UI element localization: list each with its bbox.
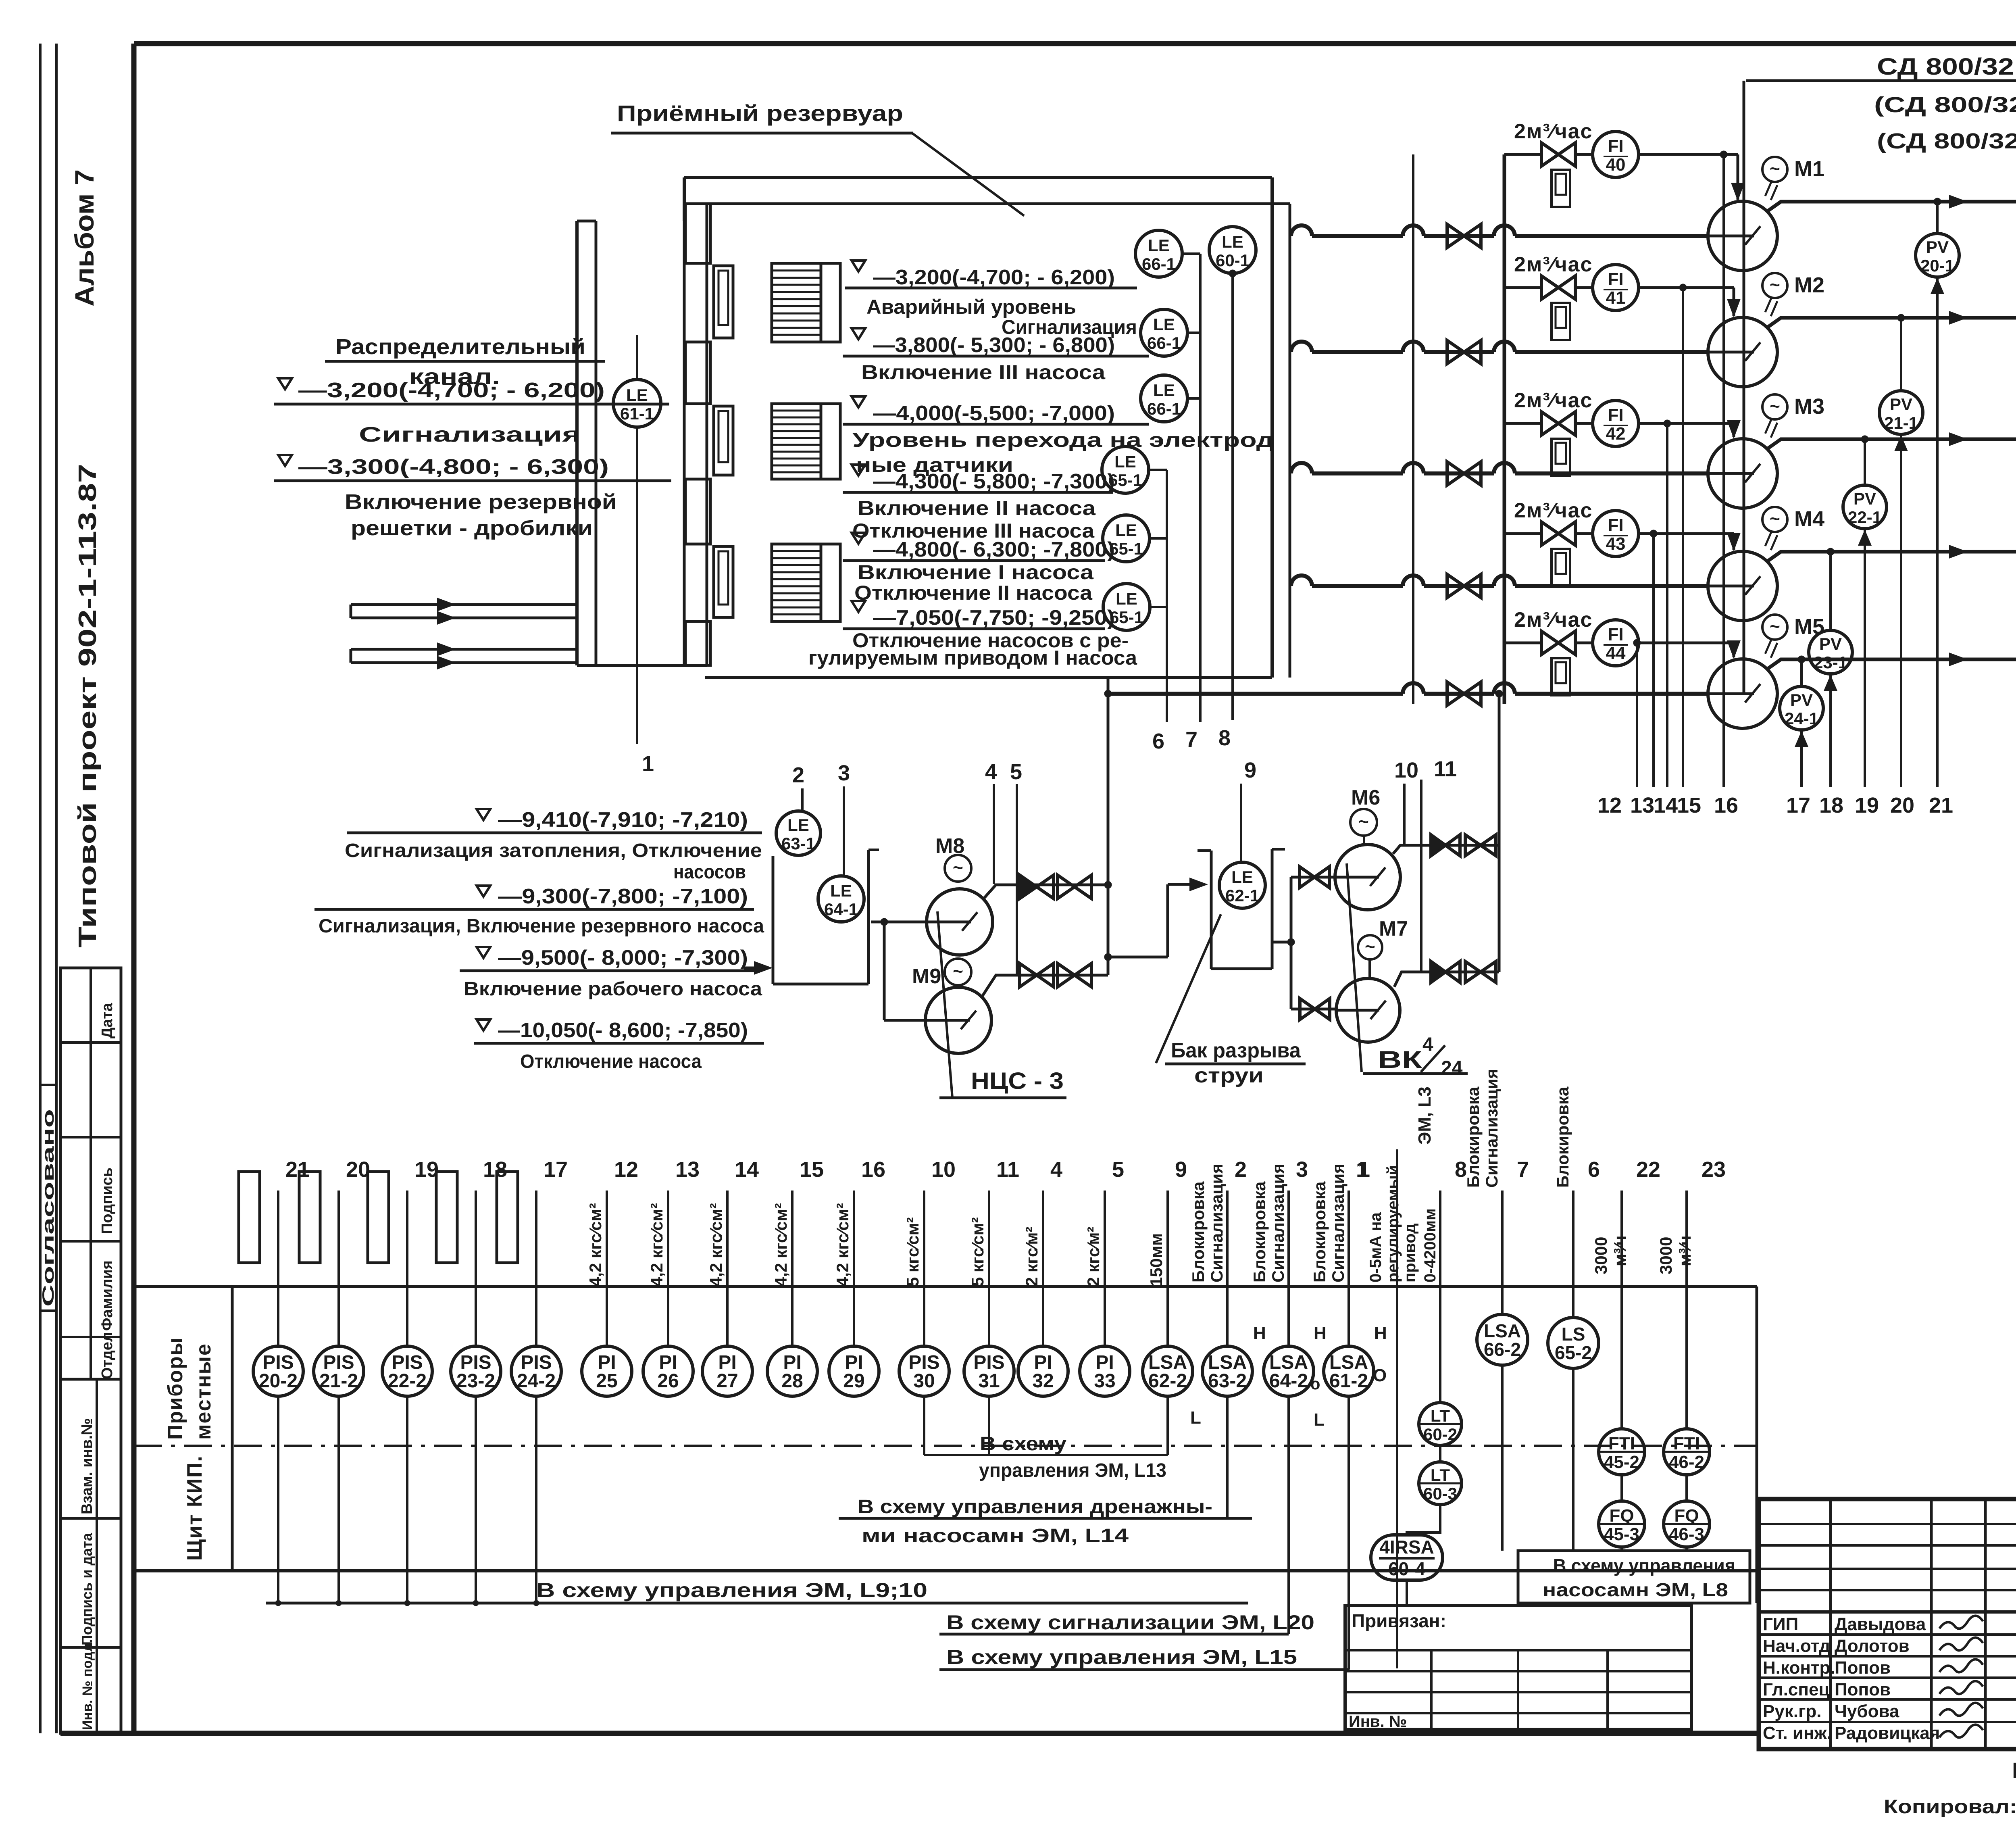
sheet edge double line left [39,44,42,1733]
pressure gauge PV 24-1 with riser 17 [1800,659,1803,686]
branch feed into pump M2 [1639,286,1734,289]
instrument LSA 62-2 [1166,1191,1169,1346]
svg-text:В схему управления дренажны-: В схему управления дренажны- [858,1496,1212,1518]
branch feed into pump M4 [1639,532,1734,535]
svg-text:4: 4 [1422,1034,1433,1055]
svg-text:64-1: 64-1 [824,900,858,919]
svg-text:5 кгс∕см²: 5 кгс∕см² [903,1217,922,1286]
level value —3,800(- 5,300; - 6,800) [852,328,865,339]
grid unit 1 right strip [821,263,840,342]
svg-text:23-2: 23-2 [456,1370,495,1392]
svg-text:М2: М2 [1794,273,1824,297]
svg-text:FQ: FQ [1609,1506,1634,1526]
instrument LSA 64-2 [1287,1191,1290,1346]
svg-text:МФ 2417-07: МФ 2417-07 [2012,1758,2016,1783]
level transmitter LE 66-1 (b) [1141,309,1187,356]
svg-text:LS: LS [1562,1324,1585,1345]
svg-text:Отдел: Отдел [99,1332,116,1379]
svg-text:Блокировка: Блокировка [1250,1181,1269,1282]
svg-text:28: 28 [781,1370,803,1392]
svg-text:Блокировка: Блокировка [1310,1181,1329,1282]
svg-text:18: 18 [1819,793,1843,817]
svg-text:41: 41 [1606,288,1626,308]
svg-text:—9,410(-7,910; -7,210): —9,410(-7,910; -7,210) [498,808,748,832]
svg-text:18: 18 [483,1157,507,1182]
level transmitter LE 65-1 (a) [1102,446,1149,493]
svg-text:Отключение II насоса: Отключение II насоса [854,582,1093,604]
svg-text:2м³∕час: 2м³∕час [1514,389,1593,412]
svg-text:Гл.спец: Гл.спец [1763,1680,1830,1699]
svg-text:привод: привод [1401,1223,1419,1282]
svg-text:Включение III насоса: Включение III насоса [861,361,1106,384]
wire to scheme L9;10 [277,1396,279,1603]
svg-text:7: 7 [1517,1157,1529,1182]
wire to scheme L20 [1287,1396,1290,1634]
instrument PIS 23-2 [475,1191,477,1346]
flow indicator FTI 45-2 [1599,1429,1645,1475]
pump M9 suction [883,922,886,1020]
svg-text:LE: LE [787,815,809,834]
svg-text:LE: LE [1153,315,1175,334]
M7 discharge gate valve [1465,961,1496,982]
wire 8 from LE 60-1 down [1231,273,1234,720]
svg-text:Н: Н [1314,1323,1327,1343]
svg-text:62-1: 62-1 [1225,886,1259,905]
svg-text:23-1: 23-1 [1814,653,1847,672]
svg-text:~: ~ [1770,275,1780,295]
suction gate valve M3 [1447,462,1481,485]
band label cell divider [231,1286,234,1571]
svg-text:В схему сигнализации ЭМ, L20: В схему сигнализации ЭМ, L20 [946,1611,1314,1634]
probe line x=2894 [1166,470,1168,722]
svg-text:Бак разрыва: Бак разрыва [1171,1039,1301,1062]
svg-text:местные: местные [192,1343,215,1440]
svg-text:64-2: 64-2 [1269,1370,1308,1392]
svg-text:25: 25 [596,1370,617,1392]
discharge line M5 [1767,659,2016,669]
svg-text:9: 9 [1175,1157,1187,1182]
instrument band top line [134,1285,1757,1288]
flush branch M4 [1504,532,1540,535]
instrument PI 32 [1042,1191,1044,1346]
svg-text:6: 6 [1152,729,1164,753]
pump column line from label [1746,79,2016,82]
stub LE 65-1 b to probe [1150,537,1167,540]
svg-text:4,2 кгс∕см²: 4,2 кгс∕см² [706,1203,725,1286]
level value —4,800(- 6,300; -7,800) [852,533,865,544]
flush branch M5 [1504,642,1540,644]
svg-text:61-1: 61-1 [620,404,654,423]
motor M2 [1762,273,1787,298]
distribution channel bottom [577,664,707,667]
sidebar box: Подпись и дата [60,1518,121,1647]
svg-text:4: 4 [1050,1157,1062,1182]
grid unit 1 door rect [714,266,733,338]
svg-text:0-4200мм: 0-4200мм [1421,1208,1439,1282]
wire 8 / 0-4200мм to LT 60-2 [1439,1191,1441,1403]
svg-text:—3,200(-4,700; - 6,200): —3,200(-4,700; - 6,200) [873,266,1115,289]
svg-text:LSA: LSA [1484,1320,1521,1341]
wire 22 to FTI 45-2 with label 3000 м3/ч [1620,1191,1623,1429]
sidebar box: Взам. инв. № [60,1379,121,1518]
svg-text:Взам. инв.№: Взам. инв.№ [79,1418,96,1514]
drain level value —9,410(-7,910; -7,210) [477,809,490,820]
svg-text:решетки - дробилки: решетки - дробилки [351,517,593,540]
svg-text:11: 11 [996,1157,1019,1182]
svg-text:НЦС - 3: НЦС - 3 [971,1068,1064,1094]
title block signature rows [1759,1523,2016,1525]
svg-text:В схему управления ЭМ, L15: В схему управления ЭМ, L15 [946,1646,1297,1668]
svg-text:5 кгс∕см²: 5 кгс∕см² [968,1217,987,1286]
svg-text:Рук.гр.: Рук.гр. [1763,1701,1822,1721]
svg-text:Сигнализация: Сигнализация [1482,1069,1501,1188]
stub LE 66-1 b to probe [1187,332,1200,334]
wire to scheme L15 [1347,1396,1350,1670]
level transmitter LE 62-1 [1219,862,1265,908]
drain level value —9,500(- 8,000; -7,300) [477,947,490,958]
svg-text:21-1: 21-1 [1884,413,1918,432]
level transmitter LT 60-3 [1439,1445,1441,1462]
branch valve M4 [1541,522,1575,545]
M9 discharge gate valve 2 [1058,963,1091,987]
level mark -3,200 left [278,378,292,389]
branch valve M1 [1541,143,1575,166]
svg-text:13: 13 [1630,793,1654,817]
svg-text:Н: Н [1253,1323,1266,1343]
pump M7 [1336,978,1400,1042]
instrument PI 29 [853,1191,855,1346]
break tank walls [1210,851,1213,969]
branch valve M5 [1541,631,1575,655]
svg-text:26: 26 [657,1370,679,1392]
tank top inner line [707,202,1290,205]
branch feed into pump M3 [1639,422,1734,425]
tank right wall outer [1270,177,1274,678]
svg-text:(СД 800/32а): (СД 800/32а) [1874,93,2016,117]
instrument PIS 21-2 [337,1191,340,1346]
svg-text:20-2: 20-2 [259,1370,298,1392]
svg-text:2м³∕час: 2м³∕час [1514,499,1593,522]
svg-text:16: 16 [861,1157,885,1182]
svg-text:—3,300(-4,800; - 6,300): —3,300(-4,800; - 6,300) [298,455,609,479]
pump M1 [1708,201,1777,271]
svg-text:PV: PV [1819,634,1842,653]
svg-text:63-1: 63-1 [781,834,815,853]
svg-text:LE: LE [1115,521,1137,540]
svg-text:СД 800/32: СД 800/32 [1877,54,2014,80]
svg-text:46-3: 46-3 [1669,1524,1704,1544]
svg-text:44: 44 [1606,643,1626,663]
M8 discharge gate valve [1058,875,1091,899]
level transmitter LE 63-1 [776,811,821,855]
svg-text:65-2: 65-2 [1555,1342,1592,1363]
tank bottom [705,676,1272,679]
break tank outlet to pumps [1272,941,1291,944]
svg-text:46-2: 46-2 [1669,1452,1704,1472]
svg-text:63-2: 63-2 [1208,1370,1247,1392]
svg-text:PV: PV [1790,690,1813,709]
svg-text:FI: FI [1608,515,1623,535]
svg-text:4,2 кгс∕см²: 4,2 кгс∕см² [771,1203,790,1286]
svg-text:Включение резервной: Включение резервной [345,490,617,514]
suction line pump M5 [1109,692,1403,696]
level value —7,050(-7,750; -9,250) [852,601,865,612]
wire 6 to LS 65-2 [1572,1191,1574,1318]
probe line x=2977 [1199,254,1202,722]
stub LE 66-1 c to probe [1187,397,1200,400]
svg-text:М3: М3 [1794,394,1824,419]
pressure gauge PV 23-1 with riser 18 [1829,552,1832,630]
svg-text:12: 12 [1597,793,1622,817]
branch tube M1 [1552,170,1570,207]
level transmitter LE 65-1 (c) [1103,584,1150,630]
drain level value —10,050(- 8,600; -7,850) [477,1020,490,1030]
svg-text:31: 31 [978,1370,1000,1392]
svg-text:15: 15 [1677,793,1701,817]
svg-text:24-2: 24-2 [517,1370,556,1392]
svg-text:регулируемый: регулируемый [1384,1165,1402,1282]
svg-text:14: 14 [735,1157,759,1182]
svg-text:Уровень перехода на электрод: Уровень перехода на электрод [852,429,1274,451]
svg-text:PV: PV [1890,395,1912,414]
svg-text:60-3: 60-3 [1423,1484,1457,1503]
svg-text:43: 43 [1606,534,1626,554]
instrument PI 26 [667,1191,669,1346]
svg-text:LE: LE [1114,452,1136,471]
stub LE 65-1 c to probe [1150,606,1167,608]
svg-text:0-5мА на: 0-5мА на [1367,1212,1385,1282]
svg-text:М9: М9 [912,965,941,988]
wire 11 [1420,780,1422,972]
local board rectangles above PIS 20-2..24-2 [239,1172,260,1263]
branch valve M3 [1541,412,1575,435]
svg-text:1: 1 [642,752,654,776]
svg-text:Н: Н [1374,1323,1387,1343]
flush branch M3 [1504,422,1540,425]
svg-text:Сигнализация: Сигнализация [1329,1163,1347,1282]
svg-text:2м³∕час: 2м³∕час [1514,120,1593,143]
svg-text:М8: М8 [935,834,964,858]
svg-text:9: 9 [1244,758,1256,782]
svg-text:7: 7 [1185,728,1198,752]
svg-text:LE: LE [626,386,648,404]
flow indicator FI 44 [1577,642,1593,644]
svg-text:24-1: 24-1 [1785,709,1818,728]
svg-text:Сигнализация, Включение резерв: Сигнализация, Включение резервного насос… [319,915,764,937]
level mark -3,300 left [278,455,292,466]
svg-text:4: 4 [985,760,997,784]
svg-text:20: 20 [1890,793,1914,817]
riser 14 from FI42 branch [1666,423,1668,787]
svg-text:м³∕ч: м³∕ч [1675,1236,1694,1266]
motor M9 [945,959,971,985]
svg-text:~: ~ [953,858,963,878]
svg-text:6: 6 [1588,1157,1600,1182]
svg-text:М1: М1 [1794,157,1824,181]
svg-text:4,2 кгс∕см²: 4,2 кгс∕см² [833,1203,852,1286]
svg-text:FTI: FTI [1608,1434,1635,1453]
svg-text:3000: 3000 [1656,1237,1675,1274]
riser 12 from FI44 branch [1636,643,1638,787]
svg-text:60-1: 60-1 [1216,251,1250,270]
switch unit LS 65-2 [1548,1318,1599,1368]
wire 1 from LE 61-1 down [636,427,638,744]
grid unit 2 door rect [714,406,733,475]
suction gate valve M5 [1447,682,1481,705]
svg-text:Включение II насоса: Включение II насоса [858,497,1096,519]
svg-text:L: L [1190,1408,1201,1428]
svg-text:ГИП: ГИП [1763,1614,1798,1634]
suction gate valve M1 [1447,224,1481,248]
svg-text:2 кгс∕м²: 2 кгс∕м² [1022,1227,1041,1286]
svg-text:3000: 3000 [1591,1237,1610,1274]
svg-text:22-2: 22-2 [388,1370,427,1392]
pump M8 suction [871,921,927,924]
svg-text:65-1: 65-1 [1110,608,1143,627]
svg-text:24: 24 [1441,1057,1463,1079]
discharge line M4 [1767,552,2016,561]
svg-text:Чубова: Чубова [1835,1701,1899,1721]
svg-text:В схему управления ЭМ, L9;10: В схему управления ЭМ, L9;10 [536,1579,927,1601]
branch tube M3 [1552,439,1570,476]
tank top outer line [684,176,1272,179]
suction gate valve M4 [1447,574,1481,598]
svg-text:Блокировка: Блокировка [1553,1086,1572,1188]
svg-text:М6: М6 [1351,786,1380,809]
level transmitter LE 65-1 (b) [1103,515,1150,562]
svg-text:21-2: 21-2 [319,1370,358,1392]
M7 suction line with valve [1291,1008,1336,1011]
pressure gauge PV 21-1 with riser 20 [1900,318,1902,391]
instrument PI 27 [726,1191,729,1346]
svg-text:60-2: 60-2 [1423,1425,1457,1444]
suction gate valve M2 [1447,340,1481,364]
svg-text:19: 19 [1855,793,1879,817]
svg-text:45-2: 45-2 [1604,1452,1639,1472]
instrument band bottom line [134,1569,1757,1572]
svg-text:30: 30 [913,1370,935,1392]
motor M5 [1762,615,1787,640]
svg-text:10: 10 [1394,758,1418,782]
svg-text:струи: струи [1194,1064,1264,1087]
discharge line M3 [1767,439,2016,449]
sidebar box: Согласовано [40,1084,56,1086]
svg-text:~: ~ [1770,159,1780,179]
svg-text:20-1: 20-1 [1920,256,1954,275]
svg-text:2: 2 [792,763,804,787]
instrument PIS 24-2 [535,1191,537,1346]
wire 7 to LSA 66-2 [1501,1191,1504,1314]
instrument PIS 30 [923,1191,925,1346]
M6 discharge check valve [1431,835,1460,856]
svg-text:21: 21 [1929,793,1953,817]
svg-text:М4: М4 [1794,507,1824,531]
svg-text:Щит КИП.: Щит КИП. [183,1455,206,1561]
pump M3 [1708,439,1777,508]
discharge line M2 [1767,318,2016,327]
drain riser to M5 suction [1107,678,1110,975]
svg-text:Радовицкая: Радовицкая [1835,1723,1940,1743]
svg-text:гулируемым приводом I насоса: гулируемым приводом I насоса [808,646,1137,669]
svg-text:PV: PV [1926,238,1949,256]
wire 0-5мА to regulated drive with label ЭМ L3 [1396,1149,1398,1668]
svg-text:21: 21 [285,1157,310,1182]
svg-text:Ст. инж.: Ст. инж. [1763,1723,1832,1743]
flow indicator FI 40 [1577,153,1593,156]
svg-text:Копировал: л.и.: Копировал: л.и. [1884,1796,2016,1818]
instrument PIS 22-2 [406,1191,408,1346]
svg-text:PV: PV [1854,489,1876,508]
wire 23 to FTI 46-2 with label 3000 м3/ч [1685,1191,1688,1429]
svg-text:2 кгс∕м²: 2 кгс∕м² [1084,1227,1103,1286]
channel top edge [577,220,596,223]
wire to scheme L14 [1226,1396,1229,1518]
svg-text:—9,500(- 8,000; -7,300): —9,500(- 8,000; -7,300) [498,946,748,970]
motor M1 [1762,157,1787,182]
svg-text:Согласовано: Согласовано [40,1109,57,1307]
svg-text:Н.контр.: Н.контр. [1763,1658,1835,1678]
grid unit 1 hatched screen [772,263,821,342]
level value —3,200(-4,700; - 6,200) [852,261,865,271]
wall pillar between grid units 2 [685,479,710,544]
level transmitter LE 66-1 (a) [1135,230,1182,277]
tank top-left step [683,177,686,221]
stub LE 66-1 a to probe [1182,252,1200,255]
title block column lines [1829,1499,1832,1749]
pump M6 [1335,844,1400,910]
svg-text:—3,800(- 5,300; - 6,800): —3,800(- 5,300; - 6,800) [873,334,1115,357]
instrument PIS 20-2 [277,1191,279,1346]
grid unit 2 hatched screen [772,404,821,479]
svg-text:~: ~ [1365,937,1375,957]
grid unit 2 right strip [821,404,840,479]
instrument PI 33 [1104,1191,1106,1346]
wire 3 to LE 64-1 [843,786,845,876]
svg-text:22-1: 22-1 [1848,508,1882,527]
svg-text:м³∕ч: м³∕ч [1610,1236,1629,1266]
pump M9 discharge [982,975,1108,997]
svg-text:FQ: FQ [1674,1506,1699,1526]
svg-text:62-2: 62-2 [1148,1370,1187,1392]
svg-text:Приёмный резервуар: Приёмный резервуар [617,100,903,126]
riser 13 from FI43 branch [1652,534,1655,787]
svg-text:66-1: 66-1 [1142,254,1176,273]
svg-text:FI: FI [1608,269,1623,289]
branch tube M2 [1552,303,1570,340]
band right closure [1756,1286,1758,1603]
svg-text:Типовой проект 902-1-113.87: Типовой проект 902-1-113.87 [74,464,102,948]
level value —4,000(-5,500; -7,000) [852,396,865,407]
level transmitter LT 60-2 [1419,1403,1462,1445]
motor M8 [945,855,971,882]
flush branch M1 [1504,153,1540,156]
svg-text:Попов: Попов [1835,1658,1891,1678]
svg-text:66-1: 66-1 [1147,399,1181,418]
sidebar stamp table: Дата/Подпись/Фамилия/Отдел [60,968,121,1379]
svg-text:3: 3 [1296,1157,1308,1182]
svg-text:33: 33 [1094,1370,1115,1392]
svg-text:10: 10 [931,1157,956,1182]
svg-text:В схему управления: В схему управления [1553,1555,1735,1576]
svg-text:29: 29 [843,1370,864,1392]
svg-text:Сигнализация: Сигнализация [359,423,581,446]
M8 discharge check valve [1020,875,1054,899]
branch valve M2 [1541,276,1575,299]
svg-text:8: 8 [1218,726,1231,750]
svg-text:—4,800(- 6,300; -7,800): —4,800(- 6,300; -7,800) [873,538,1115,561]
wire to scheme L13 [923,1396,925,1455]
svg-text:LE: LE [1116,589,1137,608]
